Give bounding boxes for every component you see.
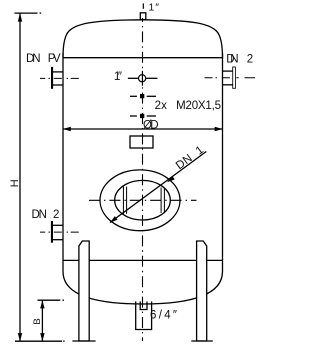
svg-text:ØD: ØD — [143, 120, 159, 132]
dimension OD line — [63, 128, 223, 130]
dimension H: vertical line — [19, 13, 21, 341]
name plate rectangle — [130, 136, 153, 148]
leader DN 1 diagonal line — [110, 152, 206, 223]
ground line — [15, 340, 62, 342]
top tangent weld line — [63, 57, 223, 59]
OD left arrow — [63, 127, 71, 131]
manhole chord lines — [122, 186, 124, 215]
nozzle DN 2 lower left: flange plate — [51, 221, 53, 243]
H top arrow — [18, 13, 22, 21]
B bottom arrow — [40, 333, 44, 341]
svg-text:2x: 2x — [155, 100, 168, 112]
bottom tangent weld line — [63, 259, 223, 261]
manhole outer ellipse — [100, 170, 180, 231]
nozzle DN 2 right: centerline — [205, 77, 256, 79]
leg right (white filled) — [197, 241, 207, 341]
bottom nozzle 6/4": outer pipe — [136, 302, 152, 330]
nozzle DN PV centerline — [40, 77, 79, 79]
bottom nozzle inner coupling — [140, 302, 147, 310]
dimension B: vertical line — [41, 300, 43, 341]
svg-text:M20X1,5: M20X1,5 — [176, 100, 221, 112]
svg-text:1″: 1″ — [114, 71, 122, 83]
nozzle DN PV flange plate — [51, 67, 53, 89]
leader arrow mid at outer ellipse — [167, 176, 175, 183]
B top arrow — [40, 300, 44, 308]
vessel centerline (vertical axis) — [142, 3, 144, 8]
nozzle DN 2 lower left: pipe — [53, 224, 63, 226]
shell right edge — [222, 53, 224, 272]
svg-text:DN: DN — [226, 54, 238, 66]
svg-text:2: 2 — [53, 209, 59, 221]
svg-text:1″: 1″ — [149, 1, 160, 13]
shell left edge — [62, 53, 64, 272]
dimension B: top extension tick — [38, 299, 61, 301]
nozzle DN 2 lower left: centerline — [40, 231, 79, 233]
M20 boss 2 — [130, 115, 137, 117]
top head (dome) — [63, 20, 223, 58]
svg-text:H: H — [9, 179, 21, 187]
svg-text:B: B — [32, 318, 43, 324]
top nozzle 1" square — [140, 13, 146, 20]
svg-text:6/4″: 6/4″ — [150, 310, 177, 322]
nozzle 1" circle — [139, 75, 146, 82]
nozzle 1" center: leader lines — [128, 77, 138, 79]
svg-text:2: 2 — [247, 54, 253, 66]
leader arrow at ellipse lower left — [110, 216, 118, 223]
leg left (white filled, occludes lines behind) — [79, 241, 89, 341]
M20 boss 1 — [130, 95, 137, 97]
svg-text:DN 1: DN 1 — [174, 144, 206, 172]
leg right baseplate — [191, 340, 213, 342]
manhole inner ellipse — [115, 180, 171, 220]
manhole horizontal centerline — [89, 199, 197, 201]
svg-text:PV: PV — [48, 53, 61, 65]
bottom head (dished) — [63, 272, 223, 305]
nozzle 1" vertical tick through circle — [141, 71, 143, 86]
H bottom arrow — [18, 333, 22, 341]
svg-text:DN: DN — [26, 53, 41, 65]
nozzle DN 2 right: pipe — [223, 70, 233, 72]
nozzle DN PV pipe — [53, 71, 63, 73]
leg left baseplate — [72, 340, 95, 342]
OD right arrow — [215, 127, 223, 131]
svg-text:DN: DN — [32, 209, 47, 221]
dimension H: top extension tick — [15, 12, 38, 14]
nozzle DN 2 right: flange plate — [233, 67, 236, 88]
